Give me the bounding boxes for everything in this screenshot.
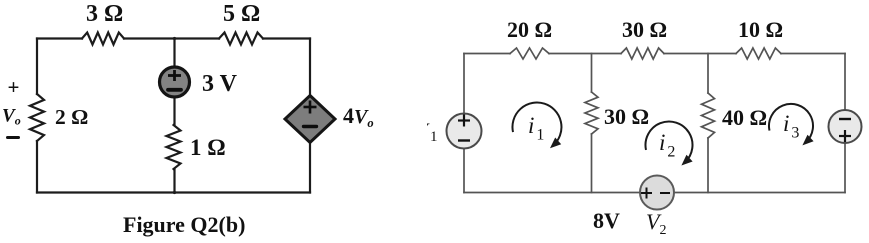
resistor R 1ohm — [167, 125, 181, 169]
wire right-circuit top segment 2 — [549, 53, 621, 55]
resistor R 30ohm vertical — [585, 92, 598, 134]
wire middle branch 1 upper — [591, 54, 593, 93]
svg-text:1 Ω: 1 Ω — [190, 135, 226, 160]
mesh current arrow i3 — [769, 104, 814, 145]
wire middle branch 2 lower — [707, 138, 709, 193]
svg-text:Vo: Vo — [354, 106, 374, 130]
svg-text:1: 1 — [430, 129, 438, 145]
svg-text:i1: i1 — [528, 113, 544, 144]
wire bottom right of V2 — [673, 192, 845, 194]
wire right branch lower — [844, 143, 846, 193]
voltage source V1 (circle) — [447, 114, 482, 149]
wire middle vertical between source and resistor — [173, 98, 175, 125]
mesh current arrow i1 — [512, 103, 561, 149]
wire right vertical upper — [309, 39, 311, 97]
svg-text:8V: 8V — [593, 208, 620, 233]
resistor R 2ohm — [30, 94, 44, 141]
wire top-middle horizontal — [124, 37, 219, 39]
node junction bottom-middle — [173, 191, 176, 194]
wire middle vertical upper — [173, 39, 175, 67]
svg-text:40 Ω: 40 Ω — [722, 105, 767, 130]
mask over clipped V1 label edge — [403, 112, 427, 146]
resistor R 5ohm — [219, 33, 263, 45]
resistor R 20ohm — [510, 48, 549, 59]
svg-text:i2: i2 — [659, 130, 675, 161]
svg-text:i3: i3 — [783, 111, 799, 142]
svg-text:2 Ω: 2 Ω — [55, 105, 88, 129]
wire right-circuit top segment 4 — [781, 53, 845, 55]
wire bottom left of V2 — [464, 192, 641, 194]
wire top-right horizontal — [263, 37, 310, 39]
wire right vertical lower — [309, 142, 311, 193]
wire middle vertical lower — [173, 169, 175, 193]
wire top-left horizontal — [37, 37, 82, 39]
svg-text:Figure Q2(b): Figure Q2(b) — [123, 212, 245, 237]
node junction top-middle — [173, 37, 176, 40]
resistor R 40ohm vertical — [702, 93, 715, 138]
resistor R 3ohm — [82, 33, 124, 45]
wire left vertical lower — [36, 141, 38, 193]
svg-text:20 Ω: 20 Ω — [507, 17, 552, 42]
label minus (Vo polarity) — [8, 136, 19, 139]
voltage source right (minus top plus bottom) — [829, 110, 862, 143]
wire left branch lower — [463, 149, 465, 193]
svg-text:V2: V2 — [646, 209, 666, 238]
svg-text:30 Ω: 30 Ω — [604, 104, 649, 129]
mesh current arrow i2 — [645, 122, 692, 166]
svg-text:3 Ω: 3 Ω — [86, 1, 123, 27]
svg-text:4: 4 — [343, 103, 354, 128]
resistor R 30ohm top — [621, 48, 664, 59]
svg-text:10 Ω: 10 Ω — [738, 17, 783, 42]
svg-text:5 Ω: 5 Ω — [223, 1, 260, 27]
svg-text:Vo: Vo — [2, 106, 21, 128]
wire middle branch 1 lower — [591, 134, 593, 193]
wire middle branch 2 upper — [707, 54, 709, 94]
wire right-circuit top segment 1 — [464, 53, 510, 55]
wire right-circuit top segment 3 — [664, 53, 736, 55]
svg-text:3 V: 3 V — [202, 71, 238, 97]
voltage source V2 8V (circle on bottom wire) — [640, 176, 674, 210]
dependent source 4Vo (diamond) — [285, 96, 335, 143]
voltage source V 3V (circle) — [160, 67, 190, 97]
wire left vertical upper — [36, 39, 38, 95]
wire bottom horizontal — [37, 191, 310, 193]
wire right branch upper — [844, 54, 846, 111]
resistor R 10ohm — [736, 48, 781, 59]
wire left branch upper — [463, 54, 465, 114]
svg-text:+: + — [8, 75, 20, 99]
svg-text:30 Ω: 30 Ω — [622, 17, 667, 42]
